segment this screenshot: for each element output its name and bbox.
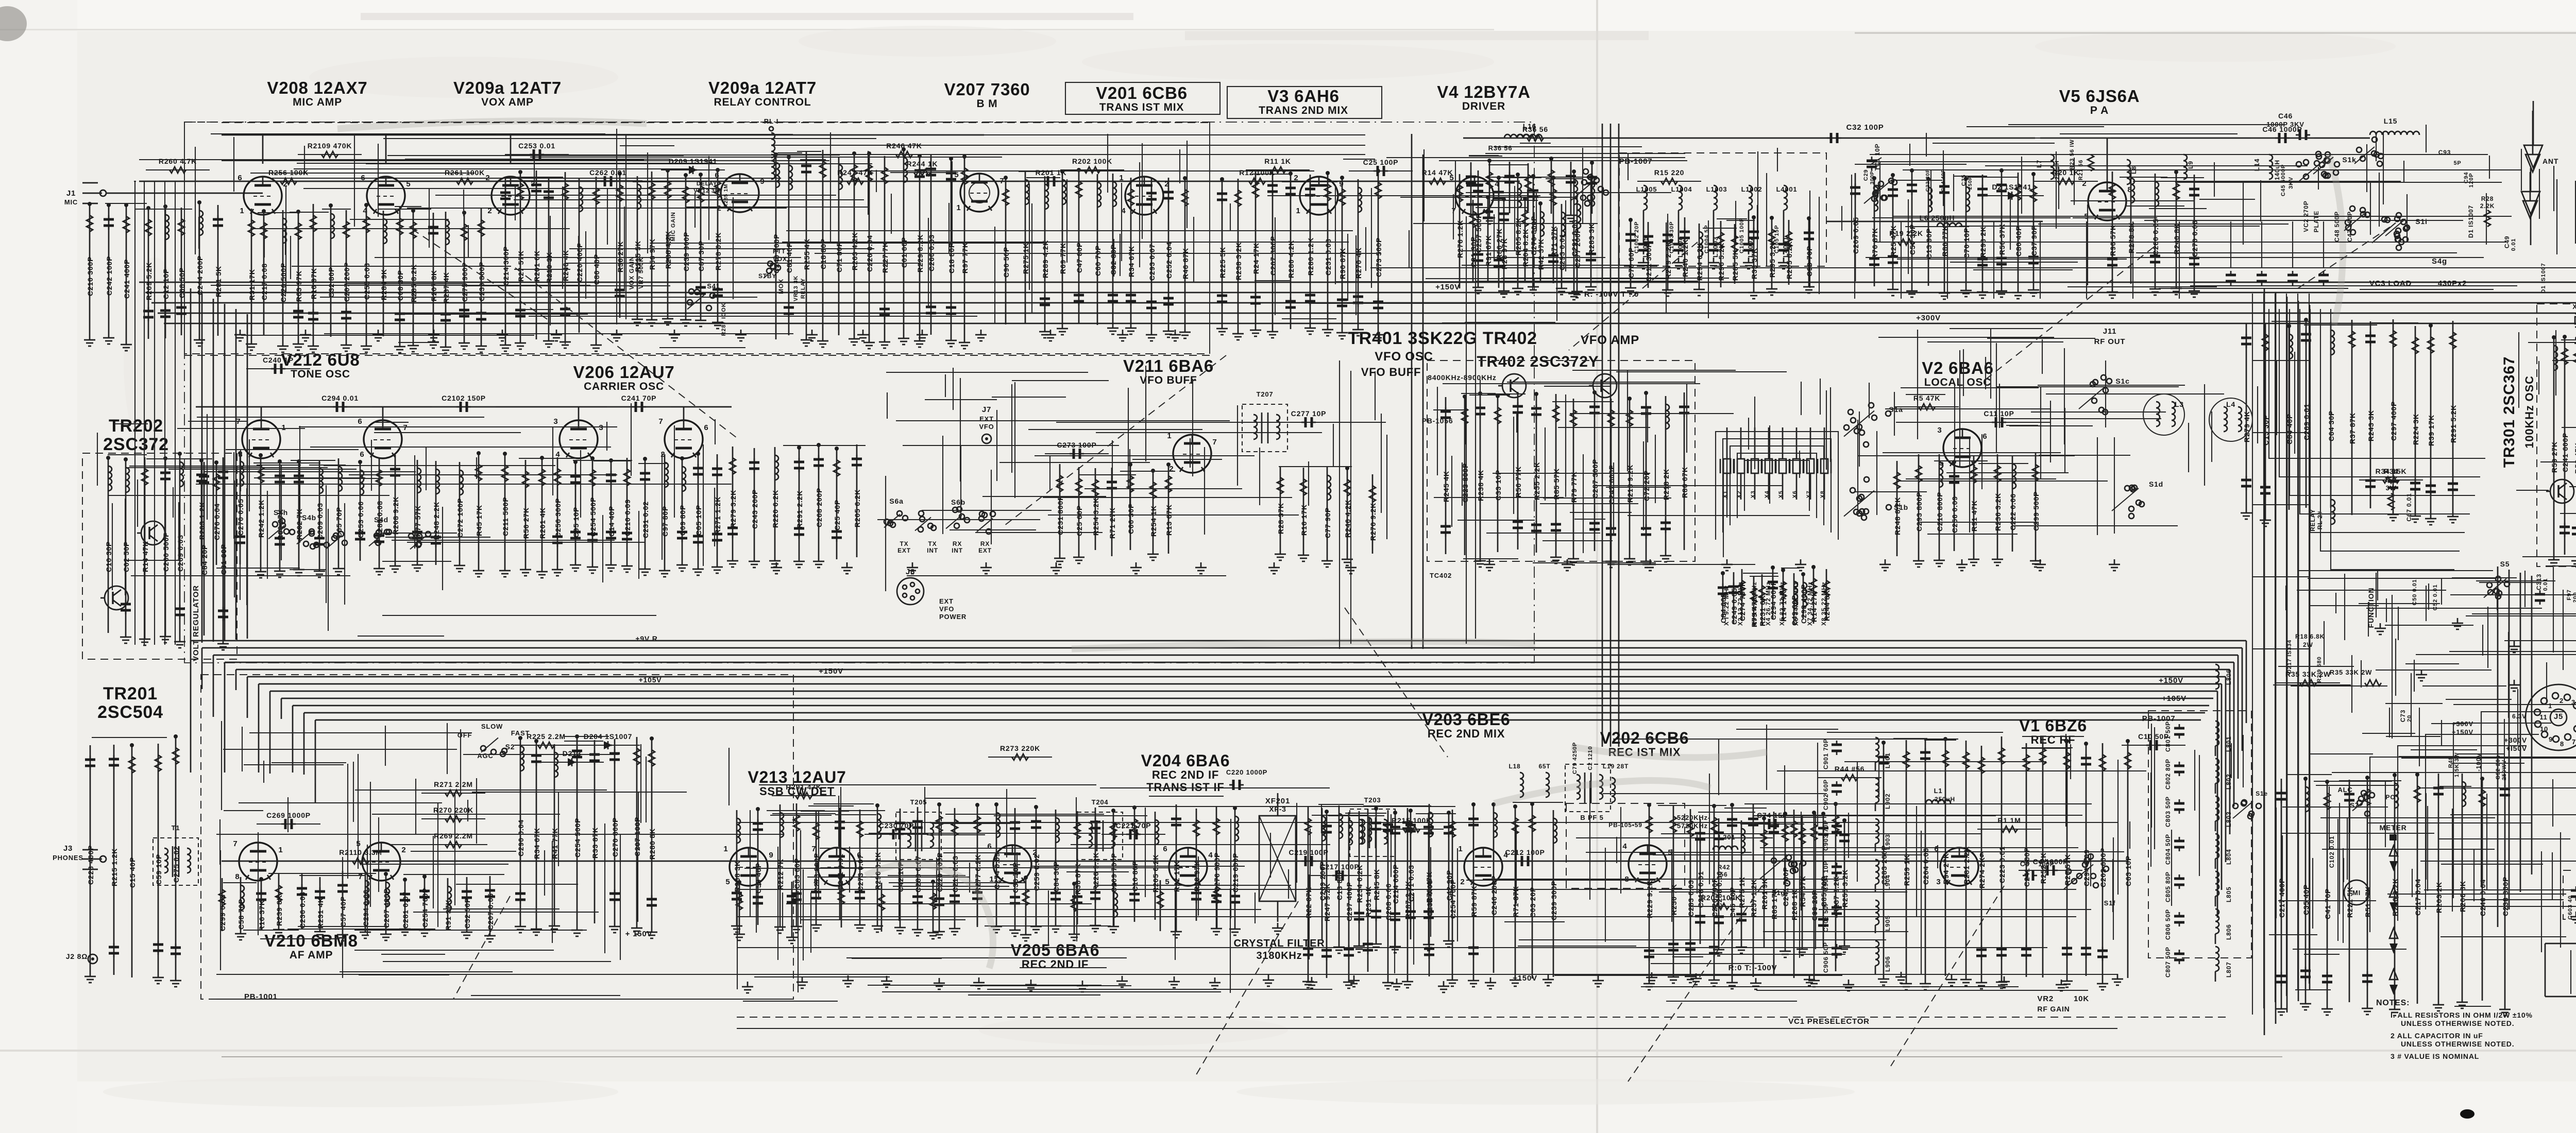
svg-text:8400KHz-8900KHz: 8400KHz-8900KHz [1428, 373, 1496, 382]
svg-text:C297 400P: C297 400P [2389, 401, 2398, 441]
svg-text:C267 400P: C267 400P [382, 888, 391, 928]
svg-text:RL-I: RL-I [764, 117, 778, 125]
svg-text:R238 4K: R238 4K [1477, 470, 1485, 501]
svg-text:R291 47K: R291 47K [786, 783, 821, 791]
svg-text:C29: C29 [1863, 169, 1869, 181]
svg-text:C99 70P: C99 70P [1805, 246, 1814, 277]
svg-text:C273 100P: C273 100P [1057, 441, 1096, 449]
svg-text:C244 200P: C244 200P [196, 255, 204, 295]
svg-text:R56 27K: R56 27K [522, 507, 530, 539]
svg-text:C1003 30P: C1003 30P [1669, 221, 1675, 253]
svg-text:C299 500P: C299 500P [2032, 491, 2040, 531]
svg-text:R34 15K: R34 15K [2376, 467, 2407, 475]
svg-text:V209a 12AT7: V209a 12AT7 [708, 78, 817, 97]
svg-text:R225 2.2M: R225 2.2M [527, 732, 566, 741]
svg-text:C281 0.07: C281 0.07 [401, 891, 410, 929]
svg-text:R70 47K: R70 47K [1425, 871, 1433, 903]
svg-text:C290 0.04: C290 0.04 [517, 819, 525, 856]
svg-text:R14 47K: R14 47K [141, 541, 149, 572]
svg-text:R256 100K: R256 100K [268, 168, 309, 177]
svg-text:C804 50P: C804 50P [2164, 834, 2172, 865]
svg-text:C217 100P: C217 100P [1319, 863, 1359, 871]
svg-text:VFO BUFF: VFO BUFF [1140, 374, 1197, 386]
svg-text:R294 6.2K: R294 6.2K [1696, 243, 1704, 281]
svg-text:C87 30P: C87 30P [697, 241, 705, 271]
svg-text:C246 200P: C246 200P [1490, 875, 1498, 915]
svg-text:TONE OSC: TONE OSC [291, 368, 350, 380]
svg-text:R259 1K: R259 1K [1903, 854, 1911, 886]
svg-text:+300V: +300V [2504, 736, 2527, 744]
svg-text:R24 17K: R24 17K [1252, 243, 1260, 274]
svg-text:UNLESS OTHERWISE NOTED.: UNLESS OTHERWISE NOTED. [2401, 1040, 2514, 1048]
svg-text:L1003: L1003 [1706, 185, 1727, 193]
svg-text:R215 100K: R215 100K [1392, 816, 1432, 825]
svg-text:R44 #56: R44 #56 [1835, 765, 1865, 773]
svg-text:R275 1K: R275 1K [1738, 877, 1746, 908]
svg-text:R34 67K: R34 67K [1127, 246, 1136, 277]
svg-text:C207 100P: C207 100P [633, 817, 641, 856]
svg-text:C4 1000P: C4 1000P [2033, 857, 2069, 866]
svg-text:VFO: VFO [979, 423, 994, 431]
svg-text:R273 220K: R273 220K [1000, 744, 1040, 752]
svg-text:L1005: L1005 [1636, 185, 1657, 193]
svg-text:8: 8 [235, 872, 240, 881]
svg-text:C95 10P: C95 10P [572, 507, 580, 538]
svg-text:C79 4250P: C79 4250P [1572, 742, 1578, 774]
svg-text:S4b: S4b [302, 513, 316, 522]
svg-text:R285 1M: R285 1M [723, 184, 729, 208]
svg-text:C210 300P: C210 300P [86, 256, 94, 296]
svg-text:C46: C46 [2278, 112, 2293, 120]
svg-text:C36 70P: C36 70P [1011, 862, 1020, 893]
svg-text:C217 0.08: C217 0.08 [260, 263, 268, 300]
svg-text:R46 87K: R46 87K [1181, 248, 1190, 279]
svg-text:R225 5K: R225 5K [1218, 247, 1227, 278]
svg-text:R236 3.2K: R236 3.2K [1994, 493, 2002, 531]
svg-text:C219 100P: C219 100P [1289, 848, 1328, 856]
svg-text:C50 0.01: C50 0.01 [2412, 579, 2418, 605]
svg-text:V4 12BY7A: V4 12BY7A [1437, 82, 1530, 101]
svg-text:EXT: EXT [978, 547, 992, 554]
svg-text:3: 3 [599, 423, 603, 432]
svg-text:R20 1K: R20 1K [2053, 168, 2079, 177]
svg-text:R203 2K: R203 2K [2435, 882, 2443, 913]
svg-text:300P: 300P [1870, 171, 1875, 185]
svg-text:C63 10P: C63 10P [2124, 855, 2132, 886]
svg-text:R45 17K: R45 17K [475, 505, 483, 536]
svg-text:C84 30P: C84 30P [1052, 861, 1060, 892]
svg-text:C58 70P: C58 70P [237, 899, 245, 930]
svg-text:X301: X301 [2572, 303, 2576, 311]
svg-text:R279 3.2K: R279 3.2K [729, 490, 737, 528]
svg-text:R33 87K: R33 87K [591, 827, 599, 859]
svg-text:L803: L803 [2225, 811, 2232, 827]
svg-text:R269 5.2K: R269 5.2K [145, 262, 153, 300]
svg-text:20: 20 [2406, 715, 2413, 722]
svg-text:L3: L3 [2175, 400, 2184, 408]
svg-text:EXT: EXT [939, 597, 954, 605]
svg-text:C293 0.01: C293 0.01 [1558, 233, 1566, 270]
svg-text:R227 7K: R227 7K [881, 242, 889, 273]
svg-text:200: 200 [2572, 592, 2576, 603]
svg-text:X7 34.72 MHz: X7 34.72 MHz [1806, 581, 1814, 626]
svg-text:3W: 3W [2385, 484, 2396, 492]
svg-text:2W: 2W [2303, 641, 2313, 648]
svg-text:R261 100K: R261 100K [445, 168, 485, 177]
svg-text:J2 8Ω: J2 8Ω [66, 952, 88, 960]
svg-text:6.3V: 6.3V [2512, 713, 2527, 720]
svg-text:MIC AMP: MIC AMP [293, 96, 342, 108]
svg-text:C271 0.03: C271 0.03 [1407, 865, 1415, 902]
svg-text:NOTES:: NOTES: [2376, 999, 2410, 1007]
svg-text:C42 90P: C42 90P [1445, 870, 1453, 901]
svg-text:C255 0.03: C255 0.03 [363, 263, 371, 300]
svg-text:C262 0.01: C262 0.01 [589, 168, 626, 177]
svg-text:MIC: MIC [64, 198, 78, 206]
svg-text:R243 3K: R243 3K [2367, 410, 2375, 441]
svg-text:L807: L807 [2225, 962, 2232, 977]
svg-text:ANTITRIP: ANTITRIP [666, 234, 671, 261]
svg-text:5: 5 [725, 878, 730, 886]
svg-text:R240 1.2K: R240 1.2K [1681, 239, 1689, 277]
svg-text:R91 37K: R91 37K [444, 899, 452, 931]
svg-text:L6 250uH: L6 250uH [1920, 214, 1955, 222]
svg-text:R255 3.2K: R255 3.2K [1841, 869, 1849, 907]
svg-text:1: 1 [281, 423, 286, 432]
svg-text:VFO BUFF: VFO BUFF [1361, 366, 1421, 379]
svg-text:1: 1 [1458, 845, 1463, 853]
svg-text:V204 6BA6: V204 6BA6 [1141, 751, 1230, 770]
svg-text:C294 0.06: C294 0.06 [362, 889, 370, 926]
svg-text:R244 1K: R244 1K [907, 160, 938, 168]
svg-text:R247 47K: R247 47K [837, 168, 873, 177]
svg-text:R271 2.2M: R271 2.2M [434, 780, 473, 788]
svg-text:V1 6BZ6: V1 6BZ6 [2019, 716, 2087, 735]
svg-text:R18 6.8K: R18 6.8K [2295, 633, 2325, 640]
svg-text:C25 40P: C25 40P [833, 500, 841, 530]
svg-text:R28 37K: R28 37K [1277, 503, 1285, 534]
svg-text:C239 900P: C239 900P [682, 232, 690, 271]
svg-text:2SC504: 2SC504 [97, 702, 163, 722]
svg-text:C66 30P: C66 30P [1127, 503, 1135, 534]
svg-text:0.01: 0.01 [2543, 578, 2549, 591]
svg-text:C47 80P: C47 80P [1075, 242, 1083, 273]
svg-text:R54 37K: R54 37K [1799, 875, 1807, 907]
svg-text:TR202: TR202 [109, 416, 163, 436]
svg-text:R270 220K: R270 220K [433, 806, 473, 814]
svg-text:VR7 500K: VR7 500K [637, 257, 645, 289]
svg-text:MI: MI [2352, 889, 2361, 897]
svg-text:C2102 150P: C2102 150P [442, 394, 486, 402]
svg-text:S1d: S1d [2149, 480, 2163, 488]
svg-text:VC3 LOAD: VC3 LOAD [2369, 279, 2412, 288]
svg-text:250uH: 250uH [1935, 796, 1955, 803]
svg-text:C269 0.03: C269 0.03 [176, 535, 184, 572]
svg-text:R91 47K: R91 47K [1970, 500, 1978, 531]
svg-text:S4d: S4d [374, 516, 388, 524]
svg-text:C1002 20P: C1002 20P [1634, 221, 1640, 253]
svg-text:PO: PO [2386, 794, 2396, 801]
svg-text:C217 0.04: C217 0.04 [2414, 879, 2422, 916]
svg-text:R205 6.2K: R205 6.2K [853, 489, 861, 527]
svg-text:L15: L15 [2384, 117, 2398, 125]
svg-text:2: 2 [2560, 697, 2564, 705]
svg-text:TC402: TC402 [1430, 572, 1452, 579]
svg-text:C03 20P: C03 20P [1529, 887, 1537, 918]
svg-text:6: 6 [360, 450, 364, 459]
svg-text:L9: L9 [2187, 161, 2194, 169]
svg-text:C269 1000P: C269 1000P [266, 811, 311, 819]
svg-text:X3 19.72 MHz: X3 19.72 MHz [1751, 581, 1758, 626]
svg-text:6: 6 [358, 417, 362, 426]
svg-text:C10 30P: C10 30P [105, 541, 113, 572]
svg-text:R245 8K: R245 8K [1372, 869, 1381, 900]
svg-text:R86 67K: R86 67K [1681, 467, 1689, 498]
svg-text:RELAY CONTROL: RELAY CONTROL [714, 96, 811, 108]
svg-text:TX: TX [900, 540, 909, 547]
svg-text:VR2: VR2 [2037, 994, 2054, 1003]
svg-text:V208 12AX7: V208 12AX7 [267, 78, 367, 97]
svg-text:3180KHz: 3180KHz [1257, 950, 1302, 962]
svg-text:C252 0.04: C252 0.04 [1165, 242, 1173, 279]
svg-text:R218 2K: R218 2K [1662, 469, 1670, 500]
svg-text:R291 2.2K: R291 2.2K [795, 490, 804, 528]
svg-text:3: 3 [553, 417, 558, 426]
svg-text:C230 70P: C230 70P [879, 821, 914, 830]
svg-text:R246 47K: R246 47K [886, 142, 922, 150]
svg-text:R238 3.2K: R238 3.2K [1234, 242, 1243, 280]
svg-text:S4g: S4g [2432, 257, 2447, 266]
svg-text:AF AMP: AF AMP [290, 949, 333, 961]
svg-text:L18: L18 [1509, 763, 1520, 770]
svg-text:R280 4.2K: R280 4.2K [1287, 240, 1295, 278]
svg-text:R35 33K 2W: R35 33K 2W [2285, 670, 2331, 678]
svg-text:R254 1K: R254 1K [1149, 505, 1158, 537]
svg-text:TX: TX [928, 540, 937, 547]
svg-text:PTT: PTT [773, 248, 786, 255]
svg-text:ALC: ALC [2337, 786, 2352, 794]
svg-text:C32 100P: C32 100P [1846, 123, 1884, 132]
svg-text:C222 0.06: C222 0.06 [2009, 493, 2017, 530]
svg-text:R239 8K: R239 8K [275, 895, 283, 926]
svg-text:L806: L806 [2225, 669, 2232, 685]
svg-text:C35: C35 [1961, 175, 1967, 186]
svg-text:R205 6.2K: R205 6.2K [1151, 854, 1160, 892]
svg-text:7: 7 [1212, 438, 1217, 447]
svg-text:R248 2.2K: R248 2.2K [432, 502, 440, 540]
svg-text:L805: L805 [2225, 886, 2232, 902]
svg-text:7: 7 [233, 839, 238, 848]
svg-text:R289 4.2K: R289 4.2K [1041, 240, 1049, 278]
svg-text:C238 800P: C238 800P [2501, 877, 2510, 916]
svg-text:R280 1.2K: R280 1.2K [1307, 237, 1315, 276]
svg-text:R242 1.2K: R242 1.2K [257, 500, 265, 538]
svg-text:R35 33K 2W: R35 33K 2W [2330, 668, 2372, 676]
svg-text:+150V: +150V [1435, 283, 1460, 291]
svg-text:1.5K 3W: 1.5K 3W [2454, 752, 2460, 777]
svg-text:C253 0.06: C253 0.06 [357, 501, 365, 538]
svg-text:R291 5.2K: R291 5.2K [2449, 405, 2458, 443]
svg-text:5P: 5P [2453, 160, 2461, 166]
svg-text:POWER: POWER [939, 613, 967, 621]
svg-text:R260 4.7K: R260 4.7K [159, 157, 197, 165]
svg-text:C239 800P: C239 800P [478, 262, 486, 301]
svg-text:R263 4.2K: R263 4.2K [851, 232, 859, 270]
svg-text:R203 1.2K: R203 1.2K [198, 502, 206, 540]
svg-text:VFO AMP: VFO AMP [1581, 333, 1639, 347]
svg-text:L19 28T: L19 28T [1603, 763, 1629, 770]
svg-text:T204: T204 [1092, 798, 1109, 806]
svg-text:S6a: S6a [889, 497, 903, 505]
svg-text:C1005 100P: C1005 100P [1739, 218, 1745, 253]
svg-text:C214 600P: C214 600P [1392, 864, 1400, 904]
svg-text:PB-1007: PB-1007 [1619, 157, 1653, 166]
svg-text:R56 77K: R56 77K [1514, 466, 1522, 497]
svg-text:R28 97K: R28 97K [1500, 238, 1509, 269]
svg-text:R39 17K: R39 17K [2427, 415, 2435, 446]
svg-text:C806 50P: C806 50P [2164, 909, 2172, 940]
svg-text:C297 400P: C297 400P [1345, 882, 1353, 921]
svg-text:T1: T1 [172, 824, 180, 832]
svg-text:R205 6.2K: R205 6.2K [1785, 241, 1793, 279]
svg-text:V202 6CB6: V202 6CB6 [1600, 729, 1689, 747]
svg-text:120P: 120P [2468, 173, 2475, 188]
svg-text:V205 6BA6: V205 6BA6 [1011, 941, 1100, 959]
svg-text:+300V: +300V [1916, 314, 1941, 322]
svg-text:C210 0.09: C210 0.09 [623, 499, 632, 536]
svg-text:METER: METER [2380, 823, 2407, 832]
svg-text:C105 15P: C105 15P [1774, 225, 1780, 253]
svg-text:C260 500P: C260 500P [162, 532, 170, 572]
svg-text:RF GAIN: RF GAIN [2037, 1005, 2070, 1013]
svg-text:R11 1K: R11 1K [1264, 157, 1291, 165]
svg-text:C70 10P: C70 10P [1962, 228, 1971, 259]
svg-text:S1i: S1i [2415, 217, 2427, 226]
svg-text:TRANS IST MIX: TRANS IST MIX [1099, 101, 1184, 113]
svg-text:C241 700P: C241 700P [1782, 867, 1790, 906]
svg-text:100KHz OSC: 100KHz OSC [2523, 375, 2536, 448]
svg-text:6: 6 [1163, 845, 1167, 853]
svg-text:R69 77K: R69 77K [1059, 243, 1067, 274]
svg-text:X6: X6 [1792, 490, 1798, 498]
svg-text:D204 1S1007: D204 1S1007 [584, 732, 632, 741]
svg-text:1: 1 [2548, 702, 2552, 710]
svg-text:C73: C73 [2399, 710, 2406, 722]
svg-text:C803 50P: C803 50P [2164, 796, 2172, 827]
svg-text:R16 17K: R16 17K [1300, 504, 1308, 536]
svg-text:X4 26.72 MHz: X4 26.72 MHz [1765, 581, 1772, 626]
svg-text:X3: X3 [1750, 490, 1756, 498]
svg-text:C90 50P: C90 50P [1002, 247, 1010, 278]
svg-text:C33 10P: C33 10P [1494, 470, 1502, 501]
svg-text:10: 10 [2540, 725, 2548, 733]
svg-text:LOCAL OSC: LOCAL OSC [1924, 376, 1991, 388]
svg-text:R202 100K: R202 100K [1072, 157, 1112, 165]
svg-text:R42 37K: R42 37K [1537, 238, 1545, 270]
svg-text:C802 80P: C802 80P [2164, 759, 2172, 789]
svg-text:C274 0.09: C274 0.09 [993, 852, 1001, 889]
svg-text:D1 IS1007: D1 IS1007 [2467, 205, 2475, 238]
svg-text:C294 0.01: C294 0.01 [321, 394, 359, 402]
svg-text:R58 47K: R58 47K [2573, 442, 2576, 474]
svg-text:VOX: VOX [773, 255, 787, 263]
svg-text:C264 0.06: C264 0.06 [1922, 848, 1930, 885]
svg-text:L14: L14 [2253, 159, 2261, 171]
svg-text:5220KHz-: 5220KHz- [1677, 814, 1710, 821]
svg-text:1: 1 [723, 845, 728, 853]
svg-text:C242 100P: C242 100P [105, 256, 113, 296]
svg-text:R226 9.2K: R226 9.2K [1092, 852, 1100, 890]
svg-text:C202 600P: C202 600P [2099, 848, 2107, 887]
svg-text:C272 100P: C272 100P [456, 498, 464, 538]
svg-text:X8 35.22 MHz: X8 35.22 MHz [1820, 581, 1827, 626]
svg-text:J7: J7 [982, 405, 991, 414]
svg-text:C240 1P: C240 1P [263, 356, 294, 364]
svg-text:B M: B M [977, 98, 998, 110]
svg-text:C59 10P: C59 10P [155, 854, 163, 885]
svg-text:R15 220: R15 220 [1654, 168, 1685, 177]
svg-text:V207 7360: V207 7360 [944, 80, 1030, 99]
svg-text:C276 0.04: C276 0.04 [213, 503, 221, 540]
svg-text:C80 40P: C80 40P [2014, 226, 2023, 256]
svg-text:6: 6 [987, 842, 992, 851]
svg-text:R201 4K: R201 4K [538, 507, 547, 539]
svg-text:R275 1K: R275 1K [1022, 243, 1030, 274]
svg-text:C805 80P: C805 80P [2164, 871, 2172, 902]
svg-text:R22 17K: R22 17K [1173, 861, 1181, 892]
svg-text:R28: R28 [2481, 195, 2494, 202]
svg-text:T207: T207 [1257, 390, 1274, 398]
svg-text:R1 1M: R1 1M [1997, 816, 2021, 825]
svg-text:R201 9K: R201 9K [1760, 878, 1769, 909]
svg-text:T203: T203 [1364, 796, 1381, 804]
svg-text:C273 800P: C273 800P [812, 853, 821, 892]
svg-text:C32 50P: C32 50P [463, 898, 471, 929]
svg-text:VOLT REGULATOR: VOLT REGULATOR [192, 585, 200, 661]
svg-text:C02 50P: C02 50P [122, 541, 130, 572]
svg-text:D217 IS334: D217 IS334 [2286, 640, 2293, 674]
svg-text:C11 10P: C11 10P [1984, 409, 2014, 418]
svg-text:C243 200P: C243 200P [751, 489, 759, 529]
svg-text:C241 70P: C241 70P [621, 394, 657, 402]
svg-text:C254 500P: C254 500P [573, 818, 582, 857]
svg-text:C288 0.06: C288 0.06 [1715, 871, 1723, 908]
svg-text:C219 600P: C219 600P [1231, 853, 1240, 892]
svg-text:CARRIER OSC: CARRIER OSC [584, 381, 664, 392]
svg-text:R14 47K: R14 47K [1422, 168, 1453, 177]
svg-text:X5: X5 [1778, 490, 1784, 498]
svg-text:VOX GAIN: VOX GAIN [628, 256, 635, 289]
svg-text:C256 300P: C256 300P [554, 498, 562, 538]
svg-text:R2110 3.3M: R2110 3.3M [339, 848, 382, 856]
svg-text:R224 3K: R224 3K [2412, 414, 2420, 445]
svg-text:C231 0.02: C231 0.02 [641, 501, 650, 538]
svg-text:EXT: EXT [979, 415, 994, 423]
svg-text:TRANS IST IF: TRANS IST IF [1146, 781, 1224, 794]
svg-text:P A: P A [2090, 105, 2109, 116]
svg-text:EXT: EXT [897, 547, 911, 554]
svg-text:INT: INT [927, 547, 938, 554]
svg-text:C270 800P: C270 800P [611, 817, 619, 857]
svg-text:R03 97K: R03 97K [295, 270, 303, 302]
svg-text:C52 0.01: C52 0.01 [2432, 584, 2438, 610]
svg-text:9: 9 [769, 851, 773, 860]
svg-text:C283 0.03: C283 0.03 [1687, 880, 1695, 917]
svg-text:C1004 5P: C1004 5P [1704, 225, 1710, 253]
svg-text:+150V: +150V [819, 667, 843, 676]
svg-text:J1: J1 [66, 189, 76, 198]
svg-text:C220 1000P: C220 1000P [1226, 768, 1267, 776]
